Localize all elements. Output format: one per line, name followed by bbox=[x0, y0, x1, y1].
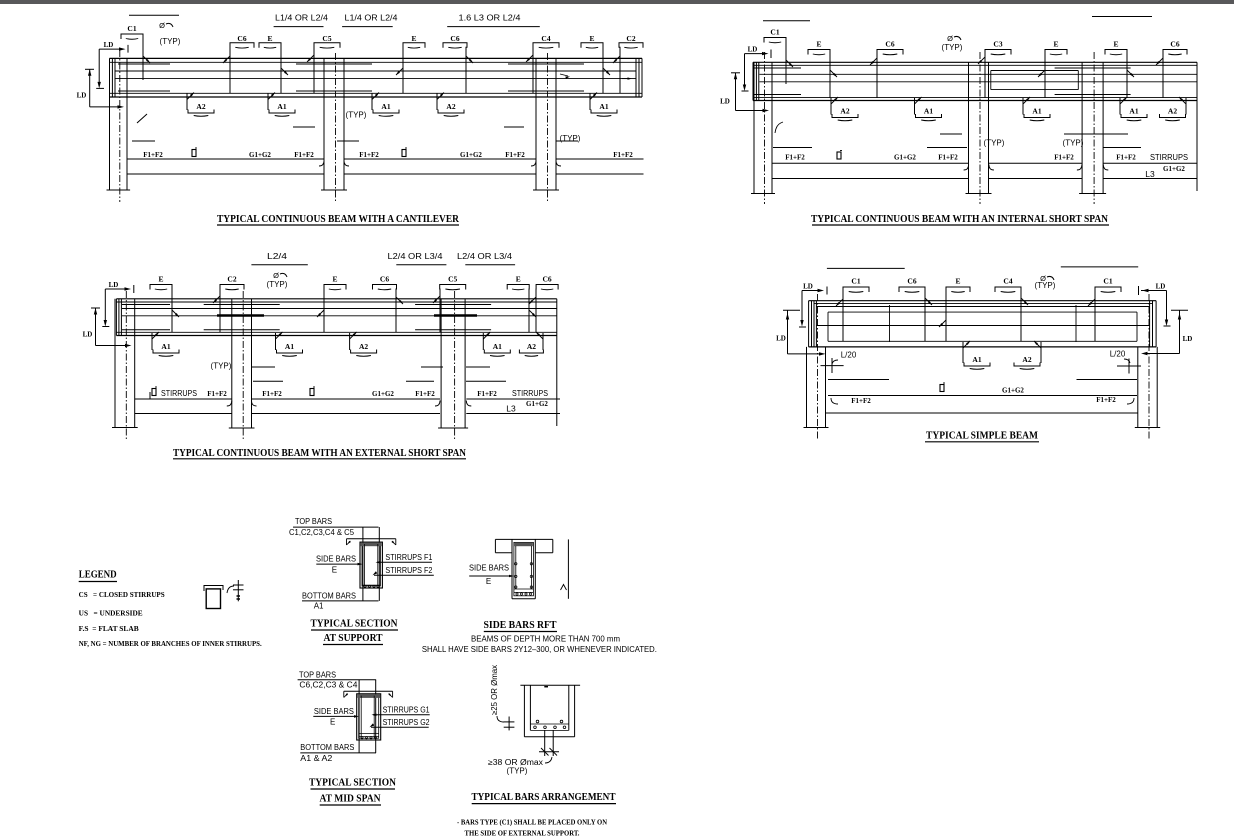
svg-text:G1+G2: G1+G2 bbox=[526, 400, 548, 408]
svg-text:G1+G2: G1+G2 bbox=[1163, 165, 1185, 173]
stirrup symbol D1-b bbox=[402, 150, 406, 157]
beam mid bar line - D4 bbox=[816, 325, 1149, 327]
svg-text:C6: C6 bbox=[237, 34, 246, 43]
svg-text:- BARS TYPE (C1) SHALL BE PLAC: - BARS TYPE (C1) SHALL BE PLACED ONLY ON bbox=[457, 818, 608, 827]
svg-text:A1: A1 bbox=[1032, 107, 1041, 116]
section at mid span: beam box bbox=[357, 694, 381, 740]
section at mid span: column strip bbox=[358, 680, 360, 753]
svg-text:LD: LD bbox=[720, 98, 730, 106]
stirrup vertical - D4 bbox=[889, 305, 891, 342]
svg-text:(TYP): (TYP) bbox=[267, 280, 288, 289]
beam mid reinforcement lines - D3 bbox=[122, 308, 557, 310]
svg-text:TOP BARS: TOP BARS bbox=[299, 671, 336, 680]
svg-text:LD: LD bbox=[109, 281, 119, 289]
svg-text:C1: C1 bbox=[127, 24, 136, 33]
section at mid span: top width bracket bbox=[344, 690, 393, 692]
svg-text:C1: C1 bbox=[1103, 277, 1112, 286]
svg-text:L1/4 OR L2/4: L1/4 OR L2/4 bbox=[345, 14, 399, 23]
thick bar segment near col-3 - D3 bbox=[434, 314, 477, 317]
svg-text:G1+G2: G1+G2 bbox=[1002, 387, 1024, 395]
svg-text:A2: A2 bbox=[1168, 107, 1177, 116]
slab line upper - D4 bbox=[828, 395, 1137, 397]
svg-text:(TYP): (TYP) bbox=[211, 362, 232, 371]
svg-text:G1+G2: G1+G2 bbox=[460, 151, 482, 159]
svg-text:Ø: Ø bbox=[947, 34, 953, 43]
column D3 col-1 bbox=[114, 299, 116, 428]
svg-text:G1+G2: G1+G2 bbox=[249, 151, 271, 159]
svg-text:≥25 OR Ømax: ≥25 OR Ømax bbox=[490, 665, 499, 715]
svg-text:TYPICAL CONTINUOUS BEAM WITH A: TYPICAL CONTINUOUS BEAM WITH AN EXTERNAL… bbox=[173, 447, 466, 459]
beam mid reinforcement lines - D2 bbox=[760, 73, 1198, 75]
svg-text:LD: LD bbox=[748, 46, 758, 54]
beam mid reinforcement lines - D1 bbox=[116, 70, 637, 72]
side bars rft: web outline bbox=[511, 539, 513, 598]
svg-text:E: E bbox=[330, 718, 335, 727]
svg-text:BOTTOM BARS: BOTTOM BARS bbox=[300, 743, 354, 752]
bars arrangement: top slab line bbox=[520, 684, 580, 686]
internal short span inner outline - D2 bbox=[991, 70, 1079, 72]
beam outline - D2 bbox=[753, 61, 1197, 63]
svg-text:C6: C6 bbox=[450, 34, 459, 43]
svg-text:G1+G2: G1+G2 bbox=[372, 390, 394, 398]
column D4 col-right bbox=[1137, 347, 1139, 428]
svg-text:AT MID SPAN: AT MID SPAN bbox=[320, 793, 381, 805]
svg-text:C6: C6 bbox=[885, 40, 894, 49]
svg-text:Ø: Ø bbox=[159, 21, 165, 30]
slab break lines - D2 bbox=[940, 133, 962, 135]
thick bar segment near col-2 - D3 bbox=[217, 314, 264, 317]
column D1 col-1 bbox=[109, 58, 111, 190]
svg-text:E: E bbox=[267, 34, 272, 43]
side bars rft: inner verticals bbox=[515, 546, 517, 589]
svg-text:(TYP): (TYP) bbox=[346, 111, 367, 120]
slab line lower - D2 bbox=[772, 178, 969, 180]
svg-text:E: E bbox=[955, 277, 960, 286]
svg-text:A1: A1 bbox=[1129, 107, 1138, 116]
svg-text:C4: C4 bbox=[541, 34, 550, 43]
svg-text:TYPICAL CONTINUOUS BEAM WITH A: TYPICAL CONTINUOUS BEAM WITH A CANTILEVE… bbox=[217, 213, 460, 225]
stirrup symbol D3-b bbox=[310, 389, 314, 396]
svg-text:F1+F2: F1+F2 bbox=[143, 151, 163, 159]
support bar segments at columns - D1 bbox=[296, 63, 372, 65]
svg-text:SHALL HAVE SIDE BARS 2Y12–300,: SHALL HAVE SIDE BARS 2Y12–300, OR WHENEV… bbox=[422, 645, 657, 654]
svg-text:(TYP): (TYP) bbox=[1035, 281, 1056, 290]
svg-text:A1: A1 bbox=[493, 342, 502, 351]
svg-text:F1+F2: F1+F2 bbox=[1116, 154, 1136, 162]
side bars rft: caret mark bbox=[561, 585, 567, 591]
svg-text:THE SIDE OF EXTERNAL SUPPORT.: THE SIDE OF EXTERNAL SUPPORT. bbox=[465, 829, 580, 838]
legend tie symbol bbox=[237, 580, 239, 601]
svg-text:A1: A1 bbox=[314, 602, 324, 611]
svg-text:C6: C6 bbox=[907, 277, 916, 286]
svg-text:A2: A2 bbox=[840, 107, 849, 116]
svg-text:(TYP): (TYP) bbox=[507, 767, 528, 776]
side bars rft: tee section flange bbox=[495, 538, 552, 540]
svg-text:E: E bbox=[332, 566, 337, 575]
svg-text:SIDE BARS: SIDE BARS bbox=[314, 707, 354, 716]
slab line upper - D3 bbox=[135, 398, 232, 400]
section at mid span: top bars band bbox=[357, 694, 380, 698]
beam outline - D3 bbox=[116, 298, 556, 300]
stirrup symbol D3-a bbox=[152, 389, 156, 396]
svg-text:C3: C3 bbox=[993, 40, 1002, 49]
svg-text:F1+F2: F1+F2 bbox=[477, 390, 497, 398]
svg-text:L2/4 OR L3/4: L2/4 OR L3/4 bbox=[388, 252, 444, 261]
side bars rft: right vertical line bbox=[567, 539, 569, 598]
svg-text:C4: C4 bbox=[1003, 277, 1012, 286]
svg-text:E: E bbox=[158, 275, 163, 284]
svg-text:E: E bbox=[589, 34, 594, 43]
svg-text:(TYP): (TYP) bbox=[984, 139, 1005, 148]
svg-text:C1,C2,C3,C4 & C5: C1,C2,C3,C4 & C5 bbox=[289, 528, 355, 537]
section at support: beam box bbox=[360, 542, 382, 588]
section at mid span: inner stirrup verticals bbox=[360, 696, 362, 738]
svg-text:C5: C5 bbox=[322, 34, 331, 43]
svg-text:L3: L3 bbox=[506, 404, 516, 414]
svg-text:G1+G2: G1+G2 bbox=[894, 154, 916, 162]
svg-text:C6: C6 bbox=[1170, 40, 1179, 49]
svg-text:E: E bbox=[486, 577, 491, 586]
slab corner hooks - D1 bbox=[319, 161, 324, 167]
svg-text:L1/4 OR L2/4: L1/4 OR L2/4 bbox=[275, 14, 329, 23]
bars arrangement: squiggle to cross bbox=[497, 716, 504, 722]
line above C1 - D2 bbox=[763, 20, 810, 22]
column D2 col-1 bbox=[753, 62, 755, 193]
dimension line left top - D4 bbox=[827, 267, 905, 269]
svg-text:(TYP): (TYP) bbox=[942, 43, 963, 52]
slab line upper - D2 bbox=[772, 162, 969, 164]
svg-text:L/20: L/20 bbox=[1110, 350, 1126, 359]
slab corner hooks - D2 bbox=[964, 165, 969, 171]
svg-text:SIDE BARS: SIDE BARS bbox=[469, 564, 509, 573]
svg-text:STIRRUPS: STIRRUPS bbox=[161, 389, 197, 398]
stirrup symbol D2-a bbox=[837, 152, 841, 159]
column D1 col-2 bbox=[323, 58, 325, 190]
tick at left end slab - D3 bbox=[149, 392, 151, 399]
slab line upper - D1 bbox=[127, 158, 324, 160]
svg-text:NF, NG = NUMBER OF BRANCHES OF: NF, NG = NUMBER OF BRANCHES OF INNER STI… bbox=[79, 640, 262, 648]
bars arrangement: left spacing cross bbox=[508, 717, 510, 731]
line above right span - D2 bbox=[1092, 16, 1152, 18]
beam outline - D4 bbox=[809, 300, 1157, 302]
side bars rft: side bar dots bbox=[515, 563, 517, 565]
svg-text:A1: A1 bbox=[599, 102, 608, 111]
svg-text:Ø: Ø bbox=[273, 271, 279, 280]
svg-text:L2/4: L2/4 bbox=[267, 252, 288, 261]
svg-text:L3: L3 bbox=[1145, 169, 1155, 179]
svg-text:C6,C2,C3 & C4: C6,C2,C3 & C4 bbox=[299, 681, 358, 690]
svg-text:L2/4 OR L3/4: L2/4 OR L3/4 bbox=[457, 252, 513, 261]
svg-text:SIDE BARS RFT: SIDE BARS RFT bbox=[484, 619, 558, 631]
section at support: inner stirrup verticals bbox=[364, 544, 366, 586]
beam outline - D1 bbox=[110, 57, 643, 59]
svg-text:LD: LD bbox=[776, 335, 786, 343]
svg-text:F1+F2: F1+F2 bbox=[359, 151, 379, 159]
svg-text:F1+F2: F1+F2 bbox=[938, 154, 958, 162]
svg-text:F1+F2: F1+F2 bbox=[613, 151, 633, 159]
column D2 col-2 bbox=[968, 62, 970, 193]
svg-text:F1+F2: F1+F2 bbox=[262, 390, 282, 398]
section at mid span: bottom bars bbox=[359, 733, 379, 735]
support bar segments at columns - D3 bbox=[204, 304, 280, 306]
svg-text:C1: C1 bbox=[851, 277, 860, 286]
svg-text:1.6 L3 OR L2/4: 1.6 L3 OR L2/4 bbox=[459, 14, 522, 23]
svg-text:C5: C5 bbox=[448, 275, 457, 284]
svg-text:F1+F2: F1+F2 bbox=[207, 390, 227, 398]
slab line lower - D1 bbox=[127, 173, 324, 175]
bars arrangement: bottom cross ticks bbox=[539, 751, 559, 753]
slab break lines - D1 bbox=[293, 126, 315, 128]
svg-text:TYPICAL SIMPLE BEAM: TYPICAL SIMPLE BEAM bbox=[926, 430, 1039, 442]
svg-text:STIRRUPS F2: STIRRUPS F2 bbox=[385, 566, 432, 575]
svg-text:A1: A1 bbox=[381, 102, 390, 111]
svg-text:C1: C1 bbox=[770, 28, 779, 37]
svg-text:LEGEND: LEGEND bbox=[79, 569, 117, 581]
stirrup symbol D1-a bbox=[192, 150, 196, 157]
svg-text:A1: A1 bbox=[285, 342, 294, 351]
svg-text:C2: C2 bbox=[626, 34, 635, 43]
bars arrangement: bar dots bbox=[534, 726, 537, 729]
svg-text:A1: A1 bbox=[277, 102, 286, 111]
svg-text:F1+F2: F1+F2 bbox=[851, 397, 871, 405]
section at support: bottom bars bbox=[362, 584, 380, 586]
top border strip bbox=[0, 0, 1234, 4]
section at support: top width bracket bbox=[347, 538, 396, 540]
svg-text:(TYP): (TYP) bbox=[160, 37, 181, 46]
line above C1 - D1 bbox=[129, 14, 179, 16]
svg-text:E: E bbox=[516, 275, 521, 284]
beam right cut line - D3 bbox=[556, 299, 558, 426]
svg-text:STIRRUPS G2: STIRRUPS G2 bbox=[383, 718, 430, 727]
bars arrangement: inner u-shape bbox=[529, 685, 531, 730]
column D3 col-3 bbox=[440, 299, 442, 428]
support bar segments at columns - D2 bbox=[754, 67, 801, 69]
bar end arrows at cantilever tip - D1 bbox=[622, 78, 630, 80]
svg-text:STIRRUPS: STIRRUPS bbox=[1150, 153, 1188, 162]
svg-text:C6: C6 bbox=[380, 275, 389, 284]
svg-text:STIRRUPS: STIRRUPS bbox=[512, 389, 548, 398]
slab corner hooks - D4 bbox=[831, 398, 838, 404]
svg-text:A2: A2 bbox=[1022, 355, 1031, 364]
svg-text:LD: LD bbox=[803, 283, 813, 291]
svg-text:L/20: L/20 bbox=[841, 351, 857, 360]
svg-text:A1: A1 bbox=[972, 355, 981, 364]
svg-text:F1+F2: F1+F2 bbox=[785, 154, 805, 162]
svg-text:F1+F2: F1+F2 bbox=[294, 151, 314, 159]
svg-text:F1+F2: F1+F2 bbox=[1096, 396, 1116, 404]
svg-text:AT SUPPORT: AT SUPPORT bbox=[324, 632, 384, 644]
slab line lower - D4 bbox=[826, 412, 1138, 414]
svg-text:STIRRUPS F1: STIRRUPS F1 bbox=[385, 553, 432, 562]
svg-text:LD: LD bbox=[104, 41, 114, 49]
svg-text:TYPICAL CONTINUOUS BEAM WITH A: TYPICAL CONTINUOUS BEAM WITH AN INTERNAL… bbox=[811, 213, 1108, 225]
svg-text:LD: LD bbox=[83, 331, 93, 339]
section at support: column strip bbox=[362, 527, 364, 601]
slab break lines - D3 bbox=[252, 366, 275, 368]
svg-text:BEAMS OF DEPTH MORE THAN 700 m: BEAMS OF DEPTH MORE THAN 700 mm bbox=[471, 635, 620, 644]
stirrup symbol D4-a bbox=[940, 385, 944, 392]
svg-text:A2: A2 bbox=[446, 102, 455, 111]
svg-text:F1+F2: F1+F2 bbox=[505, 151, 525, 159]
svg-text:US = UNDERSIDE: US = UNDERSIDE bbox=[79, 610, 143, 618]
svg-text:TYPICAL SECTION: TYPICAL SECTION bbox=[311, 618, 398, 630]
svg-text:LD: LD bbox=[1183, 335, 1193, 343]
svg-text:TOP BARS: TOP BARS bbox=[295, 517, 332, 526]
svg-text:A1: A1 bbox=[161, 342, 170, 351]
svg-text:(TYP): (TYP) bbox=[1063, 139, 1084, 148]
slab line lower - D3 bbox=[135, 413, 232, 415]
svg-text:A2: A2 bbox=[359, 342, 368, 351]
bars arrangement: outer u-shape bbox=[523, 685, 525, 737]
svg-text:F1+F2: F1+F2 bbox=[1054, 154, 1074, 162]
svg-text:E: E bbox=[332, 275, 337, 284]
side bars rft: bottom bars bbox=[514, 588, 534, 590]
svg-text:E: E bbox=[1053, 40, 1058, 49]
svg-text:F1+F2: F1+F2 bbox=[415, 390, 435, 398]
svg-text:TYPICAL SECTION: TYPICAL SECTION bbox=[309, 777, 396, 789]
svg-text:F.S = FLAT SLAB: F.S = FLAT SLAB bbox=[79, 625, 139, 633]
dimension line right top - D4 bbox=[1061, 266, 1138, 268]
column D2 col-3 bbox=[1081, 62, 1083, 193]
svg-text:LD: LD bbox=[1156, 283, 1166, 291]
column D4 col-left bbox=[806, 347, 808, 428]
svg-text:A1 & A2: A1 & A2 bbox=[300, 754, 333, 763]
svg-text:SIDE BARS: SIDE BARS bbox=[316, 555, 356, 564]
svg-text:(TYP): (TYP) bbox=[560, 134, 581, 143]
svg-text:TYPICAL BARS ARRANGEMENT: TYPICAL BARS ARRANGEMENT bbox=[472, 791, 617, 803]
side bars rft: inner stirrup bbox=[514, 542, 534, 595]
svg-text:STIRRUPS G1: STIRRUPS G1 bbox=[383, 706, 430, 715]
beam inner stirrup zone - D4 bbox=[828, 311, 1137, 313]
column D3 col-2 bbox=[231, 299, 233, 428]
svg-text:CS = CLOSED STIRRUPS: CS = CLOSED STIRRUPS bbox=[79, 591, 165, 599]
svg-text:E: E bbox=[411, 34, 416, 43]
side bars rft: top bars band bbox=[514, 543, 533, 546]
svg-text:E: E bbox=[1113, 40, 1118, 49]
svg-text:A1: A1 bbox=[924, 107, 933, 116]
bars arrangement: bottom bar verticals bbox=[544, 730, 546, 756]
svg-text:A2: A2 bbox=[196, 102, 205, 111]
section at support: top bars band bbox=[361, 543, 382, 547]
svg-text:BOTTOM BARS: BOTTOM BARS bbox=[302, 592, 356, 601]
column D1 col-3 bbox=[535, 58, 537, 190]
slab short lines - D4 bbox=[828, 379, 889, 381]
svg-text:A2: A2 bbox=[527, 342, 536, 351]
beam right cut line - D2 bbox=[1196, 62, 1198, 191]
legend stirrup symbol bbox=[206, 589, 220, 609]
svg-text:C6: C6 bbox=[543, 275, 552, 284]
slab corner hooks - D3 bbox=[227, 401, 232, 407]
svg-text:LD: LD bbox=[77, 92, 87, 100]
svg-text:C2: C2 bbox=[227, 275, 236, 284]
diagonal tick below col-1 - D1 bbox=[137, 114, 147, 123]
svg-text:E: E bbox=[816, 40, 821, 49]
diagonal hook below col-1 - D2 bbox=[775, 122, 783, 133]
